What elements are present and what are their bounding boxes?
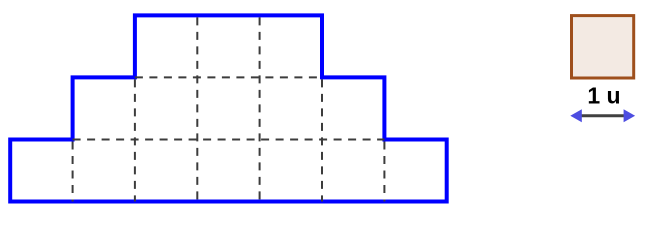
- unit square: [572, 16, 634, 78]
- interior dashed grid line vertical x=197.3: [196, 17, 198, 201]
- interior dashed grid line vertical x=72.6: [72, 142, 74, 202]
- interior dashed grid line vertical x=322.0: [321, 79, 323, 201]
- svg-text:1 u: 1 u: [587, 83, 620, 109]
- interior dashed grid line horizontal y=139.5: [73, 139, 385, 141]
- interior dashed grid line vertical x=384.4: [383, 142, 385, 202]
- left arrowhead: [570, 109, 582, 122]
- interior dashed grid line vertical x=134.9: [134, 79, 136, 201]
- double-headed arrow shaft: [580, 114, 626, 117]
- staircase polygon outline: [10, 15, 447, 201]
- right arrowhead: [624, 109, 636, 122]
- interior dashed grid line horizontal y=77.4: [135, 76, 322, 78]
- interior dashed grid line vertical x=259.6: [259, 17, 261, 201]
